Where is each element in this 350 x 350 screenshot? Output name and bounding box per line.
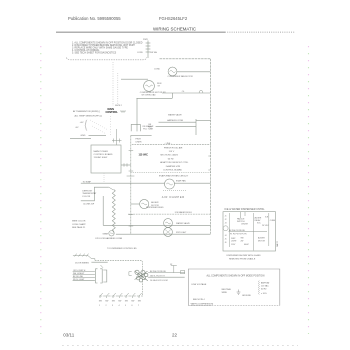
drop arrow T: [171, 266, 177, 273]
wire step riser: [171, 93, 173, 98]
svg-text:RD 14 LIGHT: RD 14 LIGHT: [73, 279, 85, 281]
svg-text:LIGHT: LIGHT: [231, 241, 237, 243]
ice maker head bracket: [131, 124, 140, 131]
dispenser internal verticals: [229, 213, 231, 247]
svg-text:J1: J1: [225, 216, 227, 218]
svg-text:60 HZ: 60 HZ: [168, 158, 175, 160]
wire to connector: [91, 261, 107, 263]
power cord plug P1: [146, 41, 151, 59]
svg-text:DISPENSER FEED: DISPENSER FEED: [146, 207, 164, 209]
legend right bracket: [258, 281, 259, 295]
svg-text:DOOR WIRES: DOOR WIRES: [75, 263, 89, 265]
cabinet left bus: [130, 135, 132, 234]
svg-text:WIRE: WIRE: [222, 292, 228, 294]
right vertical bus wire: [210, 59, 212, 234]
compressor M2: [144, 81, 155, 92]
svg-text:CORD: CORD: [137, 52, 143, 54]
svg-text:BK WH OR RD BU: BK WH OR RD BU: [150, 271, 167, 273]
harness wire labels: [150, 271, 168, 282]
wire drop defrost: [102, 196, 104, 225]
wire evap row: [81, 182, 165, 184]
svg-text:22: 22: [172, 332, 178, 337]
brace: [85, 120, 87, 131]
svg-text:SW: SW: [131, 301, 134, 303]
dispenser switch stubs: [240, 212, 242, 218]
svg-text:SW: SW: [105, 301, 108, 303]
main control board box: [91, 145, 121, 173]
plug tick: [101, 265, 104, 268]
svg-text:L55-21F: L55-21F: [82, 196, 90, 198]
svg-text:SW: SW: [118, 301, 121, 303]
svg-text:P1 P2 P3 P4 P5 P6: P1 P2 P3 P4 P5 P6: [230, 234, 247, 236]
svg-text:BK 14 LINE: BK 14 LINE: [73, 276, 84, 278]
connector ticks left: [127, 175, 135, 177]
door plug halves: [96, 269, 107, 283]
svg-text:WH 14 NEUT: WH 14 NEUT: [73, 273, 85, 275]
svg-text:J2: J2: [225, 219, 227, 221]
svg-text:MOTOR: MOTOR: [258, 241, 266, 243]
svg-text:SNSR: SNSR: [103, 233, 109, 235]
freezer section divider: [132, 144, 211, 146]
svg-text:WH: WH: [149, 127, 153, 129]
svg-text:SW: SW: [112, 301, 115, 303]
defrost labels: [82, 191, 97, 206]
wire compressor run to bus: [162, 92, 211, 94]
svg-text:PWR: PWR: [143, 39, 148, 41]
svg-text:115V: 115V: [231, 244, 236, 246]
wire upper run: [159, 121, 197, 123]
main harness junction cluster: [135, 270, 148, 282]
squiggle wire after label: [120, 111, 126, 113]
door switches: [100, 293, 142, 298]
wire compressor start: [137, 97, 173, 99]
legend box: [188, 269, 279, 306]
svg-text:BK WH OR RD BU: BK WH OR RD BU: [229, 230, 246, 232]
heater step top: [109, 187, 114, 190]
left dotted sense wire: [112, 62, 114, 106]
svg-text:NOTE 2: NOTE 2: [115, 105, 122, 107]
wire row: [103, 224, 210, 226]
svg-text:CONTROL: CONTROL: [106, 111, 119, 114]
svg-text:3: 3: [112, 305, 113, 307]
wire M3 to bus: [175, 182, 211, 184]
svg-text:RELAY: RELAY: [255, 219, 262, 222]
svg-text:-5V: -5V: [75, 127, 79, 129]
svg-text:ADAPTIVE DEFROST CTRL: ADAPTIVE DEFROST CTRL: [160, 161, 189, 164]
svg-text:ALL COMPONENTS SHOWN IN OFF MO: ALL COMPONENTS SHOWN IN OFF MODE POSITIO…: [207, 275, 265, 278]
overload protector: [199, 91, 203, 93]
wire M1 to bus: [177, 71, 211, 73]
svg-text:5. SEE TECH SHEET FOR DIAGNOST: 5. SEE TECH SHEET FOR DIAGNOSTICS: [72, 51, 117, 54]
dispenser box: [223, 212, 276, 251]
svg-text:J6: J6: [225, 242, 227, 244]
bus stub ticks right: [208, 155, 210, 157]
svg-text:MAIN POWER: MAIN POWER: [94, 150, 109, 153]
board text: [94, 150, 113, 159]
svg-text:DISP: DISP: [231, 238, 236, 240]
svg-text:CONDENSER FAN MOTOR: CONDENSER FAN MOTOR: [168, 75, 194, 78]
page perforation dots right pink: [308, 46, 310, 334]
auger motor M4: [140, 199, 149, 208]
second dotted sense wire: [117, 73, 119, 107]
M4 stub: [131, 203, 140, 205]
condenser fan motor M1: [168, 67, 177, 76]
svg-text:FZ DOOR HARNESS CONN: FZ DOOR HARNESS CONN: [96, 237, 123, 240]
svg-text:AIR DAMPER: AIR DAMPER: [162, 195, 185, 199]
divider dashed: [131, 172, 212, 174]
dispenser wire row: [229, 231, 268, 233]
svg-text:SW: SW: [99, 301, 102, 303]
svg-text:ALL TEMP SENSOR (FF) [ ]: ALL TEMP SENSOR (FF) [ ]: [75, 114, 103, 117]
svg-text:115 VAC: 115 VAC: [261, 284, 269, 287]
svg-text:AUGER: AUGER: [151, 201, 159, 204]
svg-text:WATER VALVE: WATER VALVE: [176, 222, 190, 225]
svg-text:ICE MAKER MOLD: ICE MAKER MOLD: [175, 211, 193, 214]
svg-text:24 VDC: 24 VDC: [262, 225, 269, 227]
svg-text:J3: J3: [225, 223, 227, 225]
svg-text:BK WH: BK WH: [151, 52, 158, 54]
svg-text:115 VAC: 115 VAC: [139, 153, 149, 156]
svg-text:LINER: LINER: [136, 141, 142, 143]
svg-text:SOL: SOL: [257, 223, 261, 225]
page perforation dots left green: [40, 53, 42, 334]
svg-text:CONTROL BOARD: CONTROL BOARD: [94, 153, 113, 156]
svg-text:± 10%: ± 10%: [261, 293, 267, 295]
svg-text:HARNESS CONN: HARNESS CONN: [167, 119, 184, 122]
defrost thermostat step: [81, 187, 109, 201]
svg-text:FILL TUBE: FILL TUBE: [143, 128, 153, 130]
wire drop to ice maker: [136, 98, 138, 131]
sense dotted wires: [90, 120, 108, 130]
wire line top to right bus: [160, 58, 211, 60]
svg-text:AMPS AT: AMPS AT: [261, 281, 270, 284]
svg-text:GND: GND: [81, 135, 86, 137]
board bottom stub: [103, 173, 105, 183]
connector J1 comb: [112, 129, 122, 145]
board right connector wire: [121, 164, 131, 166]
svg-text:ICE & WATER DISPENSER CNTRL: ICE & WATER DISPENSER CNTRL: [224, 208, 265, 211]
junction drop: [195, 119, 197, 135]
svg-text:Publication No. 5995590055: Publication No. 5995590055: [68, 16, 121, 21]
harness bracket: [129, 272, 132, 276]
pin labels: [73, 270, 86, 281]
svg-text:AUGER: AUGER: [258, 237, 265, 240]
left margin notes: [72, 221, 86, 230]
svg-text:EVAPORATOR FAN CIRCUIT: EVAPORATOR FAN CIRCUIT: [159, 175, 189, 178]
svg-text:CUBE: CUBE: [270, 220, 276, 222]
svg-text:7: 7: [138, 305, 139, 307]
bus stub ticks: [129, 151, 134, 227]
switch labels: [99, 301, 141, 307]
GND wire: [89, 135, 107, 137]
harness wires right: [148, 272, 185, 274]
wire dashed row: [128, 213, 211, 215]
dispenser lamp: [223, 226, 228, 231]
svg-text:PADDLE: PADDLE: [237, 218, 245, 221]
svg-text:AUGER: AUGER: [255, 216, 262, 219]
svg-text:WATER VALVE: WATER VALVE: [168, 114, 182, 117]
svg-text:5: 5: [125, 305, 126, 307]
door switch row bus: [99, 295, 143, 297]
defrost sensor tilde: [109, 231, 114, 236]
header separator rule: [56, 31, 225, 33]
svg-text:REMOVED FROM CRADLE: REMOVED FROM CRADLE: [229, 257, 256, 260]
svg-text:FRZR: FRZR: [136, 139, 142, 141]
wire from tilde to harness: [95, 260, 142, 295]
svg-text:CRUSH: CRUSH: [241, 224, 248, 226]
svg-text:GROUND: GROUND: [242, 295, 251, 297]
svg-text:6: 6: [132, 305, 133, 307]
svg-text:WIRE COLOR: WIRE COLOR: [72, 221, 86, 223]
wire to bus: [196, 120, 211, 122]
svg-text:60 HZ: 60 HZ: [261, 288, 267, 290]
cable bundle bracket: [73, 254, 95, 261]
defrost heater R1 zigzag: [112, 190, 115, 234]
legend right column: [261, 281, 270, 295]
wire ice maker to bus: [156, 125, 196, 127]
svg-text:14 GA DOOR LOOM: 14 GA DOOR LOOM: [150, 279, 168, 282]
evaporator fan motor M3: [165, 179, 175, 189]
svg-text:SW: SW: [125, 301, 128, 303]
svg-text:EVAP FAN: EVAP FAN: [176, 179, 186, 182]
svg-text:2W: 2W: [241, 241, 244, 243]
svg-text:CONN: CONN: [275, 241, 277, 247]
svg-text:FRESH FOOD AIR: FRESH FOOD AIR: [164, 147, 183, 150]
door connector pins: [73, 272, 95, 281]
page perforation dots left pink: [40, 46, 42, 334]
svg-text:W/ OVERLOAD: W/ OVERLOAD: [142, 93, 157, 96]
cabinet box top edge: [131, 134, 152, 136]
svg-text:TO DISPENSER CONTROL BD: TO DISPENSER CONTROL BD: [107, 248, 137, 250]
svg-text:CONTROL BOARD: CONTROL BOARD: [163, 168, 182, 171]
water valve solenoid: [164, 219, 173, 228]
dashes under M3: [163, 189, 186, 191]
svg-text:1: 1: [99, 305, 100, 307]
bottom page edge dots: [62, 345, 298, 347]
notes underline bracket: [67, 58, 147, 60]
page perforation dots right green: [308, 53, 310, 334]
svg-text:CODE CHART: CODE CHART: [72, 223, 86, 226]
svg-text:GN YL TN GY VT: GN YL TN GY VT: [150, 275, 166, 277]
svg-text:115VAC 60HZ: 115VAC 60HZ: [94, 156, 108, 159]
svg-text:AT THERMISTOR (FRZR) [: AT THERMISTOR (FRZR) [: [73, 110, 100, 113]
svg-text:SECTION LOADS: SECTION LOADS: [160, 154, 178, 157]
svg-text:SW: SW: [138, 301, 141, 303]
svg-text:4: 4: [119, 305, 120, 307]
svg-text:* AMPS (COMPRESSOR): * AMPS (COMPRESSOR): [190, 302, 214, 305]
svg-text:WIRING SCHEMATIC: WIRING SCHEMATIC: [153, 27, 196, 32]
svg-text:THERMOSTAT: THERMOSTAT: [82, 192, 97, 195]
GND wire lower segment: [70, 138, 91, 140]
svg-text:+5V: +5V: [80, 122, 84, 124]
svg-text:COND: COND: [154, 68, 160, 70]
dispenser labels: [231, 216, 276, 245]
wire to compressor start: [121, 78, 148, 80]
svg-text:LINE VOLTAGE: LINE VOLTAGE: [192, 283, 207, 286]
svg-text:FGHS2645LF2: FGHS2645LF2: [159, 16, 188, 21]
svg-text:SEE NOTE 4: SEE NOTE 4: [193, 299, 206, 301]
svg-text:SEE PAGE 21: SEE PAGE 21: [72, 226, 86, 229]
svg-text:SW: SW: [241, 238, 244, 240]
svg-text:2: 2: [106, 305, 107, 307]
bottom wire row: [116, 233, 211, 235]
harness end connector: [181, 271, 185, 274]
svg-text:OR 14 DISP H: OR 14 DISP H: [73, 270, 86, 272]
svg-text:DAMPER HTR: DAMPER HTR: [166, 165, 181, 168]
svg-text:115 V: 115 V: [169, 151, 175, 153]
svg-text:DISPENSER SHOWN WITH GLASS: DISPENSER SHOWN WITH GLASS: [227, 254, 262, 257]
svg-text:J5: J5: [225, 239, 227, 241]
svg-text:J4: J4: [225, 235, 227, 237]
svg-text:03/11: 03/11: [63, 332, 74, 337]
freezer light lamp: [164, 228, 173, 237]
svg-text:NEUTRAL: NEUTRAL: [222, 288, 232, 291]
dispenser left edge pin text: [225, 216, 227, 245]
svg-text:CLOSE 25F: CLOSE 25F: [83, 204, 95, 206]
notes block: [72, 41, 143, 54]
legend ground symbol: [237, 290, 241, 295]
